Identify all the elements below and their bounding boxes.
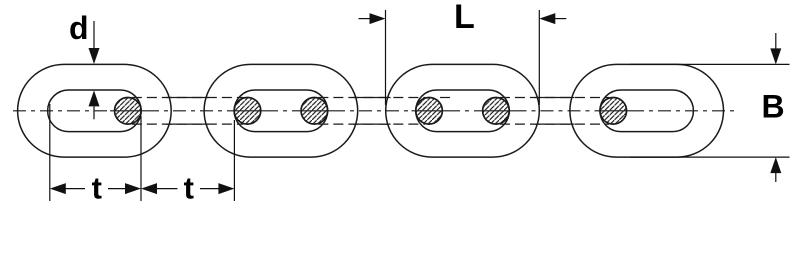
svg-text:t: t	[184, 170, 194, 205]
svg-text:d: d	[69, 10, 89, 46]
svg-text:B: B	[762, 89, 785, 125]
svg-text:t: t	[92, 170, 102, 205]
svg-text:L: L	[454, 0, 475, 36]
